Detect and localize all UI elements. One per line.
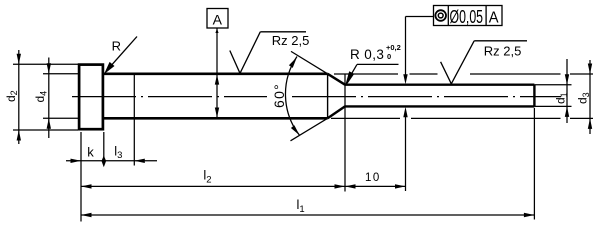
l2 right arrow [335, 184, 346, 188]
weld/transition line l3 [133, 75, 135, 166]
arc arrow top [289, 57, 297, 68]
svg-text:+0,2: +0,2 [386, 43, 401, 52]
shaft d4 bottom outline [104, 117, 328, 120]
svg-text:0: 0 [387, 52, 391, 61]
d2 dimension line [18, 50, 20, 144]
step line at cone start [327, 74, 329, 119]
d1 dimension line [566, 59, 568, 123]
cone top outline [328, 74, 345, 85]
l1 right arrow [524, 213, 535, 217]
svg-text:Rz 2,5: Rz 2,5 [272, 33, 310, 48]
d3 extension line bottom [331, 117, 593, 119]
Rz left symbol short stroke [230, 51, 240, 74]
svg-text:A: A [213, 11, 223, 27]
60 degree dimension arc [285, 57, 299, 136]
extension line x=81 (l1 l2 k) [80, 132, 82, 222]
d4 extension line top [43, 73, 78, 75]
concentricity symbol outer circle [435, 10, 446, 21]
centerline (axis) [72, 96, 267, 98]
datum leader nub arrow [215, 29, 218, 34]
cone construction line upper [291, 51, 328, 73]
10 dimension right arrow [395, 184, 406, 188]
datum diameter arrow up [215, 75, 219, 85]
concentricity symbol inner circle [438, 13, 443, 18]
tolerance frame divider 1 [447, 6, 449, 26]
extension line x=345 (l2 / 10) [344, 74, 346, 192]
d2 extension line bottom [13, 129, 78, 131]
svg-text:Ø0,05: Ø0,05 [450, 6, 484, 27]
svg-text:R 0,3: R 0,3 [350, 47, 384, 62]
datum leader line [216, 29, 218, 119]
svg-text:k: k [87, 144, 94, 159]
svg-text:R: R [112, 38, 121, 53]
d3 arrow bottom [588, 118, 592, 128]
tolerance leader horizontal [406, 16, 434, 18]
d1 arrow bottom [565, 106, 569, 117]
d3 dimension line [589, 60, 591, 134]
shared diamond arrow at k/l3 boundary [102, 155, 107, 167]
tolerance frame divider 2 [485, 6, 487, 26]
l1 left arrow [81, 213, 92, 217]
tolerance leader arrow down [403, 74, 407, 84]
datum diameter arrow down [215, 108, 219, 118]
10 dimension line [345, 185, 406, 187]
svg-text:60°: 60° [271, 83, 287, 108]
small shaft d1 bottom outline [345, 105, 534, 107]
R 0,3 leader shoulder [357, 63, 399, 65]
arc arrow bottom [291, 125, 300, 135]
R leader arrow [105, 62, 115, 73]
d1 arrow top [565, 74, 569, 85]
extension line x=534.4 (l1 right) [533, 108, 535, 220]
l2 left arrow [81, 184, 92, 188]
d3 extension line top [334, 73, 593, 75]
extension line x=103.8 (k right) [103, 132, 105, 166]
k left arrow (outside) [71, 159, 82, 163]
cone construction line lower [291, 118, 328, 141]
Rz right symbol bar [474, 40, 527, 42]
tolerance leader vertical upper [405, 17, 407, 77]
d2 arrow bottom [17, 130, 21, 141]
10 dimension left arrow [345, 184, 356, 188]
cone bottom outline [328, 106, 345, 118]
d4 extension line bottom [43, 117, 78, 119]
tolerance leader vertical lower / 10-dim extension [405, 112, 407, 191]
shaft d4 top outline [104, 73, 328, 76]
Rz left symbol bar [260, 31, 306, 33]
Rz left symbol long stroke [240, 32, 260, 74]
d1 extension line top [534, 84, 571, 86]
arrow up at small shaft bottom [403, 107, 407, 118]
d4 arrow top [47, 63, 51, 74]
R 0,3 leader arrow [346, 71, 355, 84]
l1 dimension line [81, 214, 534, 216]
d2 arrow top [17, 54, 21, 65]
centerline (axis) right part [292, 96, 561, 98]
d4 dimension line [48, 58, 50, 139]
d2 extension line top [13, 63, 78, 65]
l3 right arrow (outside) [134, 159, 145, 163]
svg-text:Rz 2,5: Rz 2,5 [484, 44, 522, 59]
l2 dimension line [81, 185, 345, 187]
head (pin head outline) [79, 65, 103, 130]
Rz right symbol short stroke [441, 62, 452, 84]
datum A frame [207, 9, 228, 29]
d1 extension line bottom [534, 105, 571, 107]
d3 arrow top [588, 64, 592, 75]
svg-text:10: 10 [365, 172, 381, 184]
d4 arrow bottom [47, 118, 51, 129]
small shaft d1 top outline [345, 83, 534, 85]
R leader line [107, 37, 138, 71]
Rz right symbol long stroke [451, 41, 474, 84]
R 0,3 leader diagonal [349, 64, 358, 79]
svg-text:A: A [489, 9, 499, 26]
k / l3 dimension line [66, 160, 157, 162]
tolerance frame [434, 6, 503, 26]
shaft end face [533, 85, 535, 107]
